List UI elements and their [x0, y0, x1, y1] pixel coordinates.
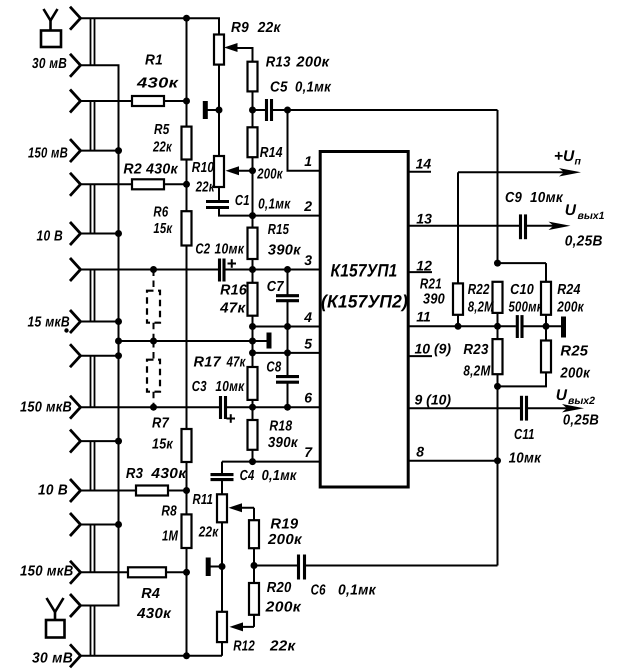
svg-text:R17: R17: [194, 355, 222, 371]
input connector X9: [70, 344, 81, 367]
resistor R15: [248, 228, 258, 259]
junction pin7 / R18: [249, 458, 256, 465]
wire: C8 branch: [287, 353, 289, 377]
svg-text:390к: 390к: [268, 243, 301, 259]
resistor R25: [541, 341, 551, 373]
svg-text:200к: 200к: [556, 300, 584, 316]
junction C5 line / pin1 drop: [284, 107, 291, 114]
junction pin3 / R15-R16: [249, 266, 256, 273]
svg-text:22к: 22к: [269, 639, 296, 655]
junction pin3 / C7: [284, 266, 291, 273]
wire: R14 to pin2 node: [252, 157, 254, 227]
input connector X8: [70, 310, 81, 333]
svg-text:150 мкВ: 150 мкВ: [20, 564, 74, 580]
wire: R23 bottom to tee: [497, 374, 499, 386]
svg-text:R1: R1: [145, 53, 163, 69]
svg-text:15к: 15к: [153, 221, 172, 237]
wire: R20 bottom to R12 arrow: [253, 615, 255, 627]
resistor R13: [248, 62, 258, 92]
svg-text:R10: R10: [192, 160, 214, 176]
svg-text:150 мВ: 150 мВ: [28, 146, 68, 162]
junction R11 chain / chassis stub: [219, 563, 226, 570]
svg-text:10 (9): 10 (9): [415, 341, 452, 357]
svg-text:C4: C4: [240, 468, 255, 484]
svg-text:R19: R19: [270, 517, 298, 533]
svg-text:30 мВ: 30 мВ: [32, 56, 67, 72]
junction pin2 / R14-R15: [249, 212, 256, 219]
svg-text:10 В: 10 В: [37, 229, 64, 245]
microphone jack symbol bottom-left: [47, 598, 64, 612]
wire: C4 to R11: [221, 480, 223, 495]
wire: pin 14 stub: [408, 171, 431, 173]
junction pin6 / dashed resistor: [150, 404, 157, 411]
wire: 10 В row: [81, 233, 119, 235]
microphone jack symbol top-left: [44, 9, 58, 21]
input connector X4: [70, 139, 81, 162]
svg-text:200к: 200к: [295, 55, 329, 71]
wire: pin 1 drop: [288, 110, 321, 171]
junction pin6 / C8: [284, 404, 291, 411]
svg-text:R5: R5: [154, 122, 170, 138]
junction R4 / VM rail: [183, 569, 190, 576]
svg-text:R13: R13: [266, 55, 291, 71]
svg-text:R25: R25: [560, 344, 589, 360]
capacitor C7: [276, 294, 299, 297]
resistor R2: [132, 179, 164, 189]
svg-text:R8: R8: [161, 504, 177, 520]
wire: C1 to pin 2: [219, 208, 320, 216]
svg-text:C3: C3: [192, 379, 207, 395]
svg-text:U: U: [556, 387, 568, 404]
junction pin11 / R21: [455, 323, 462, 330]
junction row / left rail: [115, 438, 122, 445]
svg-text:п: п: [575, 156, 582, 168]
input connector X15: [70, 594, 81, 617]
wire: pin 13 line: [408, 225, 519, 227]
junction R3 / VM rail: [183, 487, 190, 494]
trimmer arrow into R9: [232, 48, 253, 62]
svg-text:1М: 1М: [162, 529, 179, 545]
resistor R10 (trimmer): [214, 156, 224, 187]
svg-text:C8: C8: [266, 360, 281, 376]
wire: pin 7 line: [222, 461, 320, 463]
svg-text:500мк: 500мк: [509, 300, 543, 316]
wire: VM rail vertical: [186, 18, 188, 656]
wire: pin 6 net: [81, 406, 220, 408]
svg-text:C9: C9: [505, 190, 522, 206]
svg-text:0,1мк: 0,1мк: [262, 468, 297, 484]
svg-text:R16: R16: [220, 283, 248, 299]
wire: pin 9 line: [408, 407, 520, 409]
svg-text:R15: R15: [268, 222, 290, 238]
ground (chassis bar) right: [561, 317, 566, 338]
resistor R18: [248, 420, 258, 450]
wire: pin 12 stub: [408, 271, 432, 273]
svg-text:9 (10): 9 (10): [415, 392, 452, 408]
svg-text:4: 4: [303, 309, 312, 325]
svg-text:8: 8: [416, 444, 424, 460]
power rail +Uп: [458, 171, 565, 173]
junction 150 мВ / left rail: [115, 147, 122, 154]
resistor R17: [248, 367, 258, 400]
junction row / left rail: [115, 352, 122, 359]
wire: C6 line to pin 8: [254, 565, 297, 567]
svg-text:0,1мк: 0,1мк: [295, 80, 331, 96]
input connector X6: [70, 222, 81, 245]
svg-text:R7: R7: [152, 416, 170, 432]
input connector X14: [70, 561, 81, 584]
junction R14 / R10 arrow: [249, 167, 256, 174]
svg-text:R14: R14: [260, 145, 283, 161]
capacitor C8: [276, 375, 299, 378]
resistor R9 (trimmer): [214, 35, 224, 65]
wire: row y=441: [81, 440, 119, 442]
wire: pin 3 net: [81, 269, 219, 271]
svg-text:12: 12: [416, 258, 432, 274]
input connector X11: [70, 430, 81, 453]
resistor R4: [128, 567, 166, 577]
wire: pin 10 stub: [408, 355, 432, 357]
input connector X2: [70, 54, 81, 77]
resistor R19: [249, 520, 259, 548]
svg-text:200к: 200к: [265, 600, 302, 616]
wire: R25 top: [545, 326, 547, 340]
trimmer arrow into R12: [238, 626, 255, 628]
svg-text:22к: 22к: [152, 140, 172, 156]
wire: R16 pin3 to pin5: [252, 270, 254, 283]
wire: 15 мкВ row: [81, 321, 119, 323]
wire: C7 branch: [287, 270, 289, 296]
svg-text:11: 11: [416, 309, 431, 325]
shielded cable screen (double line) segments: [90, 18, 92, 65]
svg-text:C11: C11: [514, 427, 535, 443]
svg-text:15к: 15к: [152, 437, 173, 453]
wire: R4 input row: [81, 571, 129, 573]
svg-text:47к: 47к: [226, 355, 246, 371]
svg-text:10мк: 10мк: [215, 379, 244, 395]
svg-text:вых1: вых1: [578, 210, 605, 222]
svg-text:10 В: 10 В: [38, 483, 68, 499]
svg-text:10мк: 10мк: [509, 451, 542, 467]
junction R2 / VM rail: [183, 181, 190, 188]
svg-text:C6: C6: [311, 583, 327, 599]
wire: bottom rail: [81, 655, 223, 657]
svg-text:430к: 430к: [136, 606, 171, 622]
junction mid line / R16-R17 rail: [249, 338, 256, 345]
capacitor C4: [211, 473, 234, 476]
resistor R22: [493, 282, 503, 313]
input connector X3: [70, 90, 81, 113]
wire: R12 to bottom rail: [221, 642, 223, 656]
svg-text:13: 13: [416, 211, 432, 227]
resistor R12 (trimmer): [217, 612, 227, 642]
junction R23/R25 bottom tee: [494, 383, 501, 390]
svg-text:К157УП1: К157УП1: [331, 261, 398, 281]
svg-text:3: 3: [304, 252, 312, 268]
svg-text:7: 7: [304, 444, 313, 460]
resistor R23: [493, 339, 503, 374]
resistor R16: [248, 283, 258, 316]
svg-text:10мк: 10мк: [530, 190, 563, 206]
wire: pin 8 line: [408, 460, 497, 462]
svg-text:R12: R12: [233, 639, 255, 655]
input connector X10: [70, 396, 81, 419]
junction R9 chain / chassis stub: [216, 107, 223, 114]
dashed resistor (optional) lower: [153, 341, 155, 360]
svg-text:200к: 200к: [559, 366, 590, 382]
junction pin6 / R17-R18: [249, 404, 256, 411]
wire: pin 5 line: [253, 352, 321, 354]
input connector X16: [70, 644, 81, 667]
resistor R21: [453, 283, 463, 314]
svg-text:R24: R24: [557, 282, 581, 298]
svg-text:R21: R21: [420, 277, 442, 293]
capacitor C3 (electrolytic): [219, 396, 222, 419]
wire: R23 top: [497, 326, 499, 339]
wire: pin7 corner down to C4: [221, 462, 223, 475]
svg-text:30 мВ: 30 мВ: [32, 651, 73, 667]
wire: R1 input row: [81, 100, 133, 102]
junction mid line / left rail: [115, 338, 122, 345]
svg-text:2: 2: [303, 198, 312, 214]
dashed resistor (optional) upper: [153, 270, 155, 291]
wire: R9 to R10 chain: [218, 65, 220, 156]
junction tee / R22: [494, 260, 501, 267]
wire: R17 to pin6: [252, 400, 254, 407]
junction VC / pin5: [249, 349, 256, 356]
wire: tee to R24: [498, 262, 547, 264]
wire: R10 to C1: [218, 187, 220, 202]
resistor R11 (trimmer): [217, 494, 227, 522]
svg-text:200к: 200к: [256, 167, 283, 183]
svg-text:0,25В: 0,25В: [563, 413, 599, 429]
resistor R1: [132, 96, 164, 106]
svg-text:R20: R20: [267, 580, 292, 596]
svg-text:R18: R18: [269, 419, 293, 435]
capacitor C1: [206, 200, 229, 203]
resistor R5: [182, 127, 192, 160]
junction bottom rail / VM rail: [183, 652, 190, 659]
junction top rail / VM rail: [183, 15, 190, 22]
wire: R18 pin6 to pin7: [252, 407, 254, 420]
svg-text:390: 390: [423, 292, 445, 308]
svg-text:R11: R11: [193, 492, 214, 508]
svg-text:R2 430к: R2 430к: [123, 162, 178, 178]
capacitor C9: [519, 214, 522, 239]
svg-text:22к: 22к: [195, 180, 215, 196]
wire: 30 мВ input down the left rail: [81, 65, 119, 605]
wire: R11 to R12: [221, 522, 223, 612]
svg-text:(К157УП2): (К157УП2): [321, 292, 408, 312]
svg-text:R22: R22: [468, 282, 490, 298]
wire: R19 arrow corner: [253, 508, 255, 520]
junction VC / pin4: [249, 323, 256, 330]
svg-text:C2: C2: [195, 242, 210, 258]
svg-text:47к: 47к: [219, 301, 246, 317]
capacitor C2 (electrolytic): [218, 259, 221, 282]
svg-text:22к: 22к: [198, 525, 219, 541]
svg-text:C10: C10: [510, 282, 534, 298]
svg-text:200к: 200к: [267, 532, 302, 548]
junction C7 branch / pin4: [284, 323, 291, 330]
junction C7 branch / pin5: [284, 349, 291, 356]
resistor R6: [182, 211, 192, 245]
svg-text:R9: R9: [231, 20, 249, 36]
wire: R21 to pin11: [457, 315, 459, 327]
wire: C5 line / top-right run: [253, 109, 266, 111]
wire: R20 top: [253, 566, 255, 584]
wire: R22 to pin11: [497, 313, 499, 326]
svg-text:8,2М: 8,2М: [468, 300, 495, 316]
wire: R25 bottom tee: [498, 372, 547, 386]
svg-text:1: 1: [304, 153, 312, 169]
wire: R15 to pin3: [252, 259, 254, 270]
svg-text:15 мкВ: 15 мкВ: [28, 315, 71, 331]
svg-text:8,2М: 8,2М: [463, 364, 491, 380]
junction R19-R20 / C6 line: [251, 562, 258, 569]
svg-text:+U: +U: [554, 148, 575, 165]
svg-text:U: U: [565, 202, 577, 219]
svg-text:R3: R3: [126, 466, 143, 482]
wire: mid line to chassis bar: [119, 340, 270, 342]
resistor R3: [136, 486, 168, 496]
wire: right rail tee down to pin8: [497, 386, 499, 460]
junction 15 мкВ / left rail: [115, 318, 122, 325]
resistor R14: [248, 127, 258, 157]
junction row / left rail: [115, 521, 122, 528]
capacitor C11: [520, 396, 523, 421]
ground (chassis bar) near R11: [206, 558, 211, 577]
svg-text:6: 6: [304, 390, 312, 406]
wire: row y=356: [81, 355, 119, 357]
wire: R13 to C5 node: [252, 91, 254, 127]
junction pin3 / dashed resistor: [150, 266, 157, 273]
input connector X5: [70, 173, 81, 196]
wire: R2 input row: [81, 183, 133, 185]
wire: R19 to C6 line: [253, 548, 255, 565]
trimmer arrow into R11: [237, 507, 255, 509]
resistor R20: [249, 583, 259, 615]
wire: R24 to pin11: [545, 315, 547, 327]
svg-text:R4: R4: [141, 586, 160, 602]
junction pin11 / R22-R23: [494, 323, 501, 330]
capacitor C5: [265, 99, 268, 121]
junction pin8 / right rail: [494, 457, 501, 464]
wire: 150 мВ row: [81, 150, 119, 152]
input connector X1: [70, 7, 81, 30]
svg-text:C7: C7: [267, 279, 285, 295]
ground (chassis bar) near R9: [203, 101, 208, 119]
capacitor C10 (series in pin11 line): [516, 315, 519, 338]
junction R13-R14 / C5 line: [249, 107, 256, 114]
op-amp U1 К157УП1 (IC box): [320, 152, 408, 488]
junction pin11 / R24-R25: [543, 323, 550, 330]
junction mid line / dashed resistors: [150, 338, 157, 345]
ground (chassis bar) mid: [267, 333, 272, 349]
wire: pin 11 line: [408, 325, 516, 327]
wire: top rail from X1 to R9: [81, 18, 220, 34]
output arrow Uвых2: [528, 407, 568, 409]
resistor R24: [541, 282, 551, 315]
svg-text:430к: 430к: [136, 76, 179, 92]
svg-text:14: 14: [416, 156, 432, 172]
resistor R7: [182, 429, 192, 462]
svg-text:вых2: вых2: [568, 395, 595, 407]
junction 10 В / left rail: [115, 230, 122, 237]
svg-text:430к: 430к: [150, 466, 186, 482]
svg-text:0,25В: 0,25В: [565, 234, 603, 250]
svg-text:0,1мк: 0,1мк: [258, 197, 291, 213]
wire: R3 input row: [81, 490, 137, 492]
svg-text:0,1мк: 0,1мк: [338, 583, 376, 599]
wire: row y=524: [81, 524, 119, 526]
input connector X13: [70, 513, 81, 536]
svg-text:R23: R23: [463, 342, 488, 358]
input connector X7: [70, 258, 81, 281]
svg-text:22к: 22к: [257, 20, 281, 36]
svg-text:C5: C5: [270, 80, 288, 96]
svg-text:390к: 390к: [268, 435, 298, 451]
junction R1 / VM rail: [183, 98, 190, 105]
resistor R8: [182, 514, 192, 548]
trimmer arrow into R10: [234, 170, 253, 172]
svg-text:10мк: 10мк: [215, 242, 245, 258]
capacitor C6: [297, 555, 300, 580]
svg-text:R6: R6: [153, 205, 168, 221]
wire: pin 4 line: [253, 326, 321, 328]
input connector X12: [70, 479, 81, 502]
svg-text:C1: C1: [235, 193, 250, 209]
output arrow Uвых1: [527, 225, 555, 227]
svg-text:150 мкВ: 150 мкВ: [20, 400, 72, 416]
svg-text:5: 5: [304, 335, 312, 351]
